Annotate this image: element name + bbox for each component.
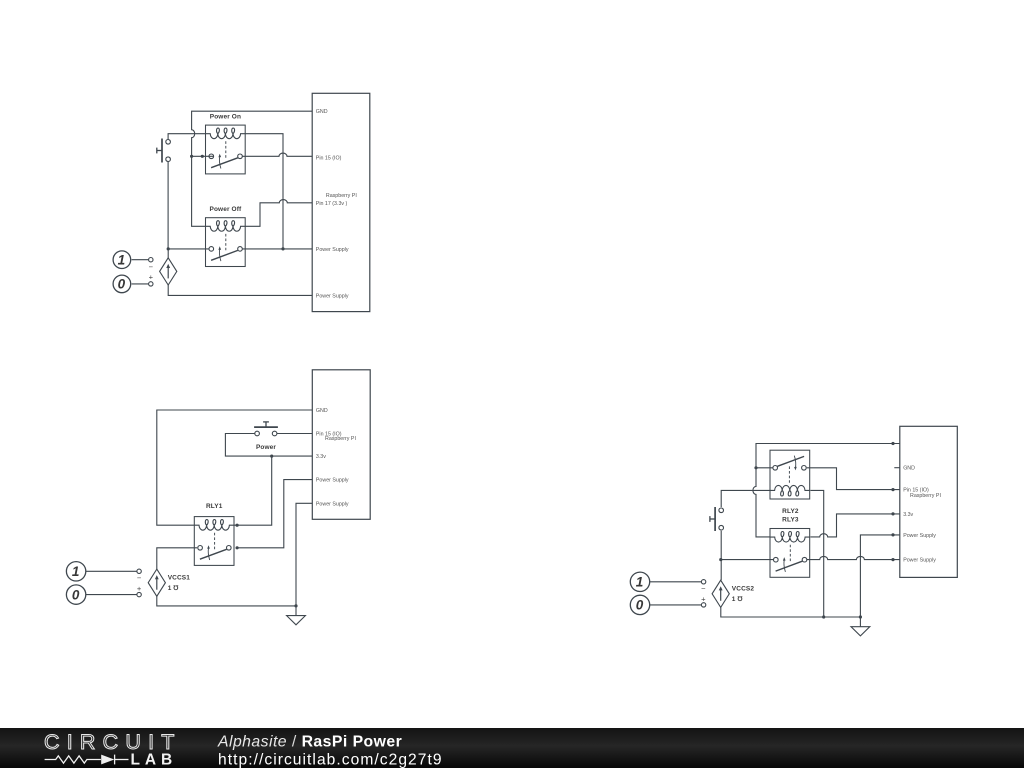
svg-text:Power Supply: Power Supply [316,478,349,484]
pushbutton SW2 [710,507,724,531]
wire source bottom along ground rail [721,607,861,617]
wire node 0 to control terminal [132,283,149,285]
source VCCS2 diamond [712,580,729,607]
svg-text:+: + [149,273,154,282]
raspberry pi box U2 [312,370,370,520]
wire RLY1 switch common to source [157,548,197,570]
svg-text:+: + [701,595,706,604]
wire button top to RLY2 coil left [721,490,770,507]
wire node 1 to control terminal [86,570,137,572]
wire junction to RLY2 switch common [756,467,773,469]
svg-text:RLY1: RLY1 [206,503,223,510]
wire GND junction to Power On switch common [192,155,214,157]
svg-text:1 ℧: 1 ℧ [168,584,180,592]
junction dot RLY1 switch pin [236,546,239,549]
control terminal minus [149,258,153,262]
GND stub unconnected [894,467,900,469]
junction dot RLY1 coil pin [236,524,239,527]
wire node A to Power Off switch common [168,248,209,250]
wire Pin 17 to Power Off coil right [245,200,312,227]
wire node 0 to control terminal [650,604,702,606]
svg-text:GND: GND [316,408,328,414]
svg-text:0: 0 [118,277,126,292]
svg-text:0: 0 [636,598,644,613]
wire RLY2 coil right down to ground rail [810,490,823,617]
wire button top to Power On coil [168,134,205,140]
svg-text:−: − [701,584,706,593]
junction dot RLY3 switch node [719,558,722,561]
svg-text:1: 1 [72,564,80,579]
node 1 flag [630,572,649,591]
relay Power On [206,125,246,174]
wire node 1 to control terminal [650,581,702,583]
pin junction dot [891,558,894,561]
junction dot node A [167,247,170,250]
svg-text:Power Supply: Power Supply [316,293,349,299]
wire Power Supply to ground rail [860,535,899,617]
junction dot RLY2 switch node [754,466,757,469]
svg-text:LAB: LAB [131,751,178,768]
svg-text:3.3v: 3.3v [316,454,326,460]
wire GND to RLY1 coil [157,410,312,525]
svg-text:Alphasite / RasPi Power: Alphasite / RasPi Power [217,734,402,751]
raspberry pi box U3 [900,426,958,577]
raspberry pi box U1 [312,93,370,311]
ground symbol [851,617,870,636]
control terminal minus [137,569,141,573]
svg-text:Power: Power [256,444,276,451]
relay RLY3 [770,529,810,578]
junction dot 3.3v node [270,455,273,458]
svg-text:Power Supply: Power Supply [903,533,936,539]
wire Power Supply 2 to ground [296,503,312,606]
wire button bottom to node A [167,162,169,249]
svg-text:0: 0 [72,587,80,602]
pin junction dot [891,488,894,491]
svg-text:−: − [137,574,142,583]
logo resistor and diode [45,755,129,765]
wire node 0 to control terminal [86,594,137,596]
junction dot ground node [294,604,297,607]
wire RLY2 switch right to Pin 15 [807,468,900,490]
control terminal plus [149,282,153,286]
svg-text:http://circuitlab.com/c2g27t9: http://circuitlab.com/c2g27t9 [218,752,443,768]
svg-text:3.3v: 3.3v [903,512,913,518]
junction dot [201,155,204,158]
ground symbol [287,606,306,625]
svg-text:+: + [137,584,142,593]
wire button bottom through switch node to source [720,531,722,580]
pin junction dot [891,512,894,515]
svg-text:Raspberry PI: Raspberry PI [326,193,357,199]
relay RLY1 [194,517,234,566]
junction dot ground rail 2 [859,615,862,618]
wire source bottom to Power Supply 2 [168,285,312,295]
node 1 flag [66,562,85,581]
wire source bottom to ground node [157,596,296,606]
svg-text:−: − [149,262,154,271]
wire GND to Power Off coil [192,111,313,226]
svg-text:Power On: Power On [210,113,241,120]
svg-text:Pin 17 (3.3v ): Pin 17 (3.3v ) [316,201,348,207]
svg-text:VCCS1: VCCS1 [168,574,191,581]
svg-text:Power Supply: Power Supply [903,558,936,564]
control terminal plus [137,592,141,596]
svg-text:RLY2: RLY2 [782,508,799,515]
wire node A to source top [167,249,169,258]
wire RLY1 switch right to Power Supply [236,480,312,548]
node 0 flag [630,595,649,614]
wire Pin 15 to button right [277,433,313,435]
svg-text:1: 1 [118,253,126,268]
svg-text:Power Supply: Power Supply [316,247,349,253]
wire Power On coil right down to Power Supply [245,134,283,249]
source VCCS1 diamond [148,569,165,596]
wire 3.3v to RLY3 coil right [810,514,899,537]
svg-text:GND: GND [903,466,915,472]
svg-text:Pin 15 (IO): Pin 15 (IO) [316,155,342,161]
wire RLY3 switch right to Power Supply 2 [807,556,900,559]
wire 3.3v node to RLY1 coil right [234,456,272,525]
control terminal plus [701,603,705,607]
junction dot ground rail [822,615,825,618]
junction dot [281,247,284,250]
svg-text:1: 1 [636,575,644,590]
wire node 1 to control terminal [132,259,149,261]
pushbutton SW1 [157,139,171,163]
control terminal minus [701,580,705,584]
svg-text:Raspberry PI: Raspberry PI [325,436,356,442]
pin junction dot [891,442,894,445]
svg-text:Raspberry PI: Raspberry PI [910,493,941,499]
wire junction to RLY3 switch common [721,559,773,561]
svg-text:VCCS2: VCCS2 [732,586,755,593]
svg-text:CIRCUIT: CIRCUIT [44,730,182,754]
wire Power Off switch to Power Supply pin [242,248,312,250]
wire button left to 3.3v [225,434,312,457]
pin junction dot [891,533,894,536]
svg-text:GND: GND [316,109,328,115]
footer bar [0,728,1024,768]
svg-text:RLY3: RLY3 [782,517,799,524]
pushbutton Power [254,422,278,436]
node 1 flag [113,251,131,269]
svg-text:Power Off: Power Off [210,206,242,213]
node 0 flag [113,275,131,293]
relay Power Off [206,218,246,267]
svg-text:1 ℧: 1 ℧ [732,595,744,603]
wire Power On switch to Pin 15 [242,153,312,156]
relay RLY2 (rotated) [770,450,810,499]
wire top pin to RLY3 coil left [753,444,900,537]
node 0 flag [66,585,85,604]
junction dot [190,155,193,158]
source VCCS diamond [160,258,177,285]
svg-text:Power Supply: Power Supply [316,501,349,507]
